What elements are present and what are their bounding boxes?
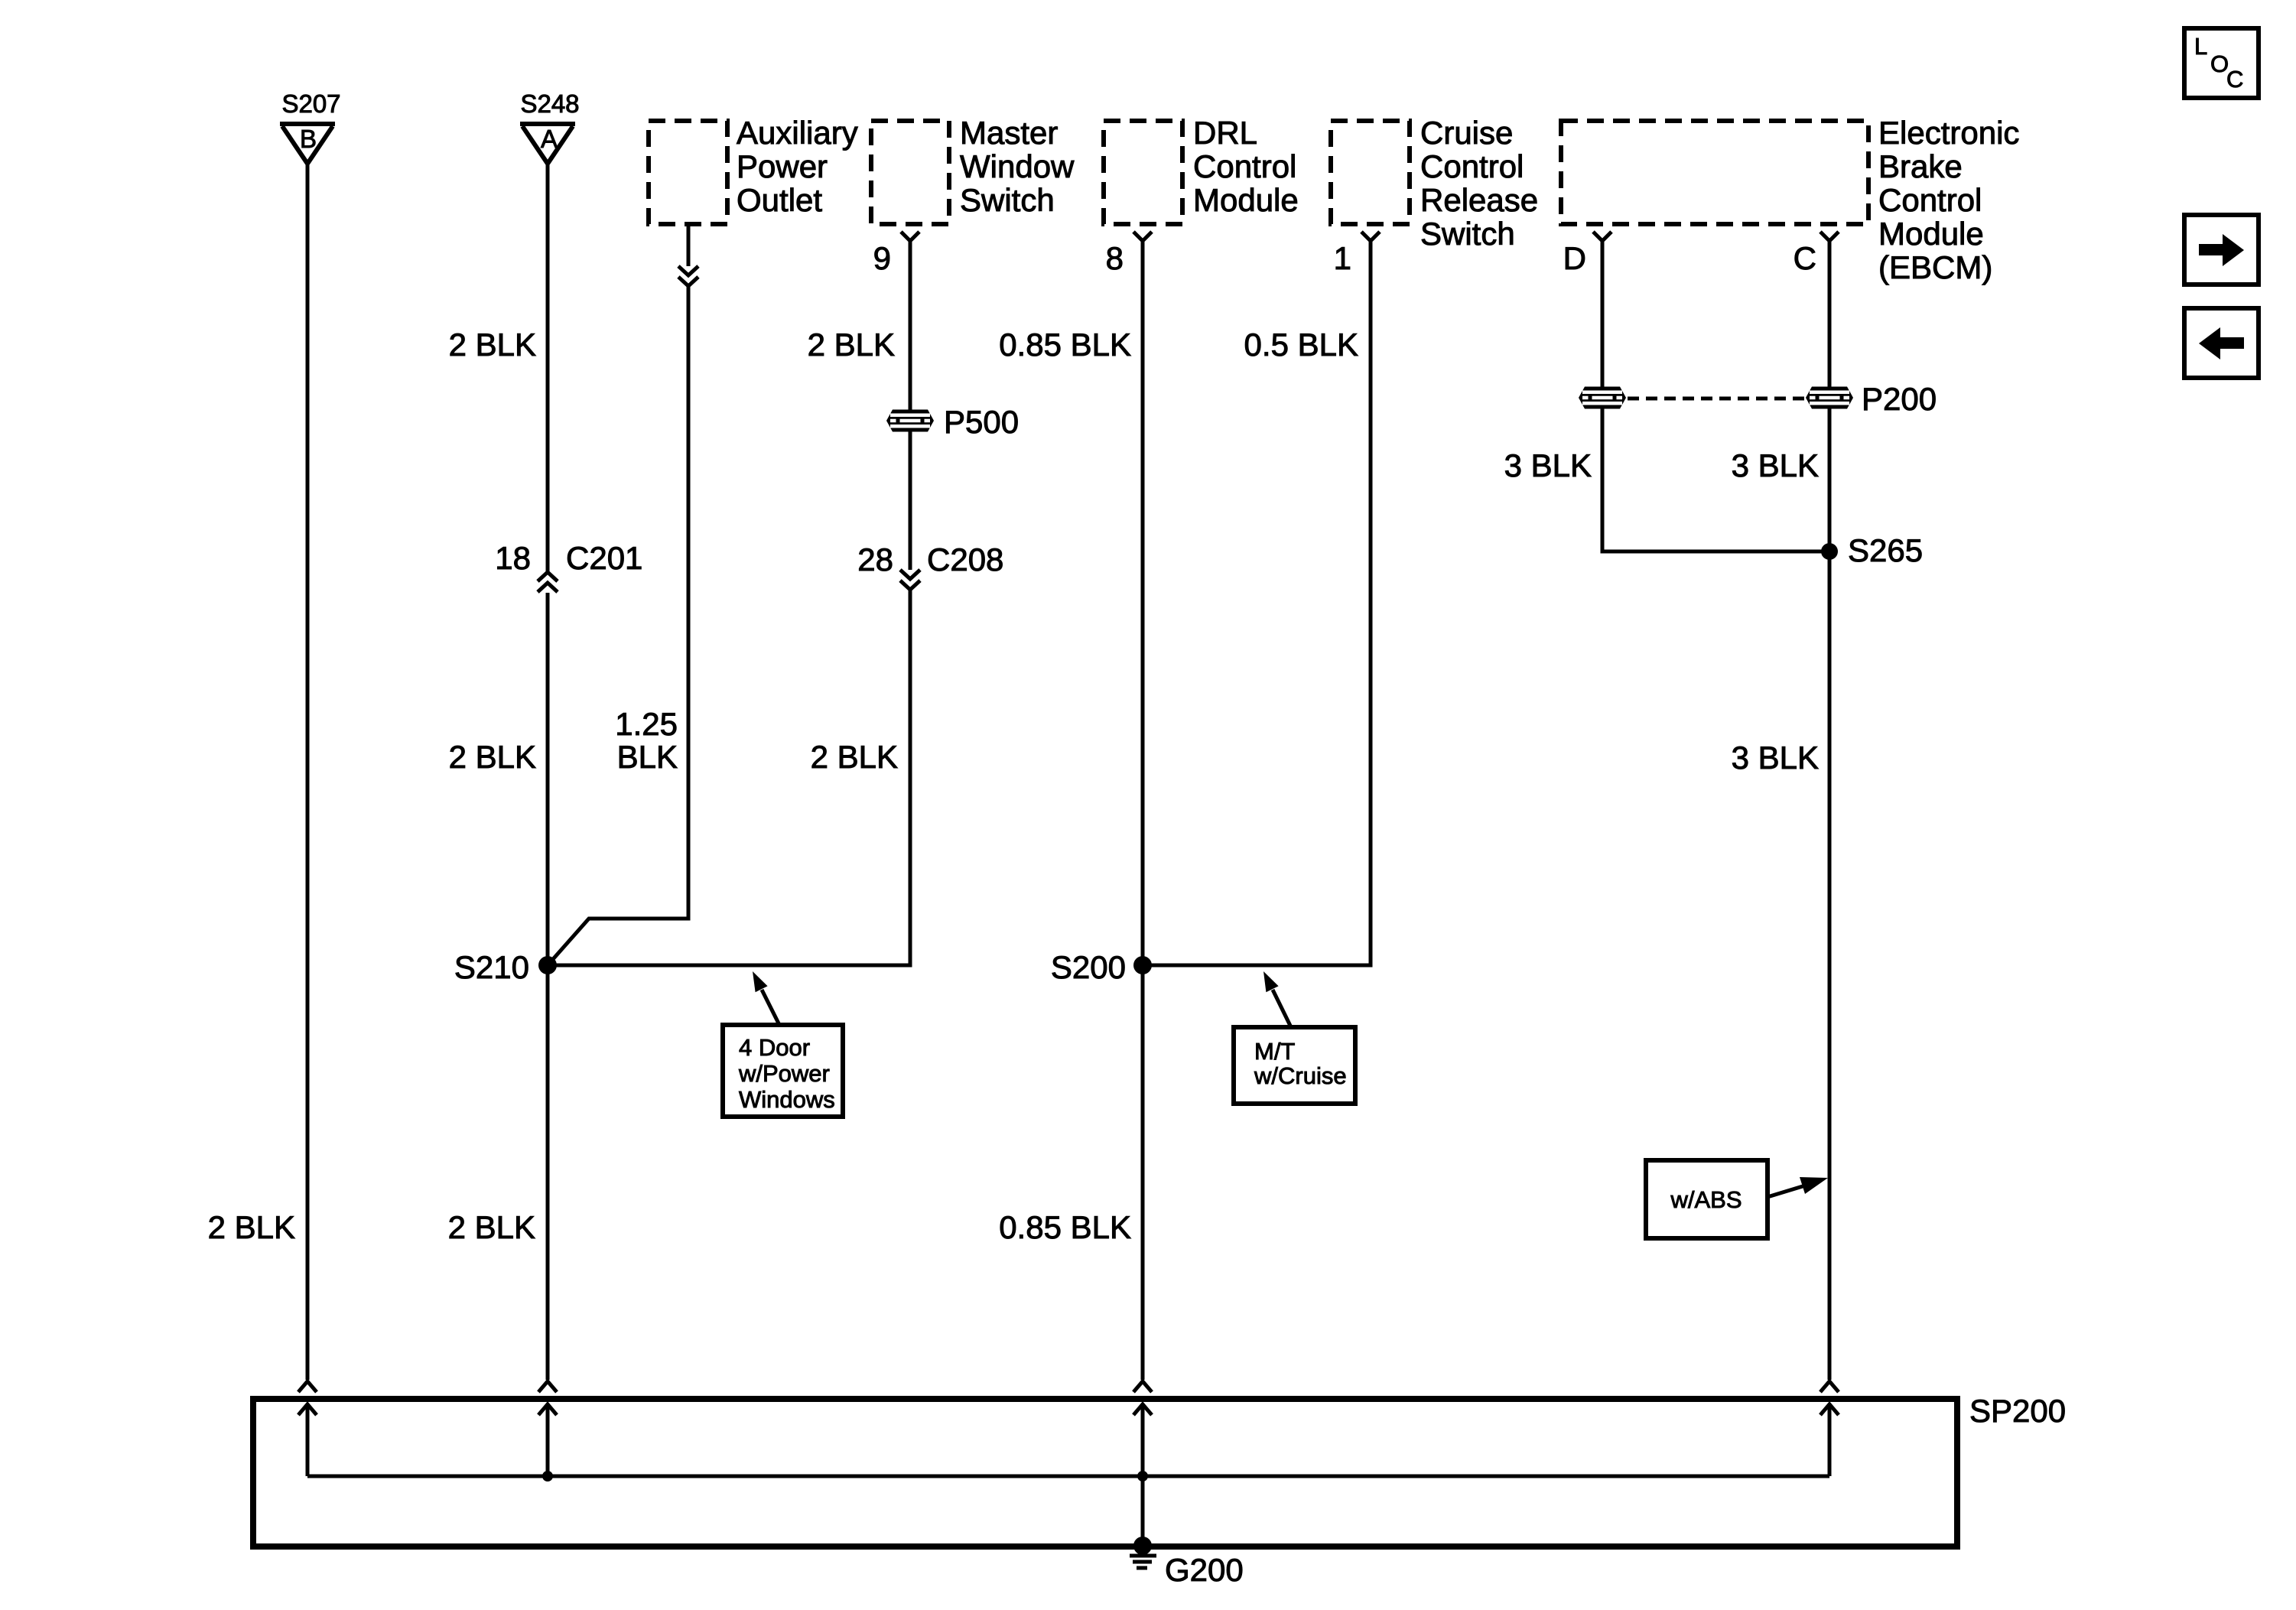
svg-text:Auxiliary: Auxiliary — [737, 115, 858, 151]
svg-text:Module: Module — [1878, 216, 1984, 252]
svg-text:w/Power: w/Power — [738, 1060, 830, 1087]
svg-text:Power: Power — [737, 148, 828, 184]
svg-text:3 BLK: 3 BLK — [1504, 447, 1592, 483]
svg-text:2 BLK: 2 BLK — [448, 1209, 535, 1245]
svg-text:S200: S200 — [1051, 949, 1126, 985]
svg-text:3 BLK: 3 BLK — [1732, 447, 1819, 483]
svg-text:Cruise: Cruise — [1420, 115, 1513, 151]
svg-text:D: D — [1563, 240, 1586, 276]
svg-text:G200: G200 — [1165, 1552, 1244, 1588]
svg-text:Switch: Switch — [1420, 216, 1515, 252]
svg-text:28: 28 — [857, 542, 893, 577]
svg-text:8: 8 — [1106, 240, 1124, 276]
svg-text:Window: Window — [960, 148, 1075, 184]
svg-text:2 BLK: 2 BLK — [449, 327, 536, 363]
svg-text:2 BLK: 2 BLK — [808, 327, 895, 363]
svg-text:Brake: Brake — [1878, 148, 1963, 184]
svg-text:P500: P500 — [944, 404, 1019, 440]
svg-text:(EBCM): (EBCM) — [1878, 249, 1992, 285]
svg-text:1.25: 1.25 — [615, 706, 678, 742]
svg-text:Module: Module — [1193, 182, 1299, 218]
svg-text:Electronic: Electronic — [1878, 115, 2019, 151]
svg-text:S207: S207 — [281, 89, 340, 118]
svg-text:18: 18 — [495, 540, 531, 576]
svg-text:3 BLK: 3 BLK — [1732, 740, 1819, 776]
svg-text:Windows: Windows — [739, 1086, 835, 1113]
svg-text:Outlet: Outlet — [737, 182, 822, 218]
svg-text:C: C — [2226, 66, 2243, 93]
svg-text:M/T: M/T — [1254, 1038, 1295, 1065]
svg-text:2 BLK: 2 BLK — [811, 739, 898, 775]
svg-text:S265: S265 — [1848, 532, 1923, 568]
svg-text:0.85 BLK: 0.85 BLK — [999, 1209, 1131, 1245]
svg-text:P200: P200 — [1862, 381, 1937, 417]
svg-text:0.5 BLK: 0.5 BLK — [1244, 327, 1358, 363]
svg-text:C201: C201 — [566, 540, 642, 576]
svg-text:1: 1 — [1334, 240, 1351, 276]
svg-text:C: C — [1794, 240, 1816, 276]
svg-text:B: B — [300, 125, 317, 153]
svg-text:Master: Master — [960, 115, 1058, 151]
svg-text:BLK: BLK — [617, 739, 678, 775]
svg-text:0.85 BLK: 0.85 BLK — [999, 327, 1131, 363]
svg-text:Control: Control — [1193, 148, 1296, 184]
svg-text:S248: S248 — [520, 89, 579, 118]
svg-text:w/ABS: w/ABS — [1670, 1186, 1742, 1213]
svg-text:2 BLK: 2 BLK — [449, 739, 536, 775]
svg-text:4 Door: 4 Door — [739, 1034, 810, 1061]
svg-text:Switch: Switch — [960, 182, 1055, 218]
svg-text:w/Cruise: w/Cruise — [1254, 1062, 1347, 1089]
svg-text:Control: Control — [1420, 148, 1524, 184]
svg-text:Control: Control — [1878, 182, 1982, 218]
svg-text:2 BLK: 2 BLK — [208, 1209, 295, 1245]
svg-text:DRL: DRL — [1193, 115, 1257, 151]
svg-text:A: A — [541, 125, 558, 153]
svg-text:SP200: SP200 — [1969, 1393, 2066, 1429]
svg-text:C208: C208 — [927, 542, 1003, 577]
svg-text:Release: Release — [1420, 182, 1538, 218]
svg-text:L: L — [2194, 33, 2207, 60]
svg-text:9: 9 — [873, 240, 891, 276]
svg-text:S210: S210 — [454, 949, 529, 985]
